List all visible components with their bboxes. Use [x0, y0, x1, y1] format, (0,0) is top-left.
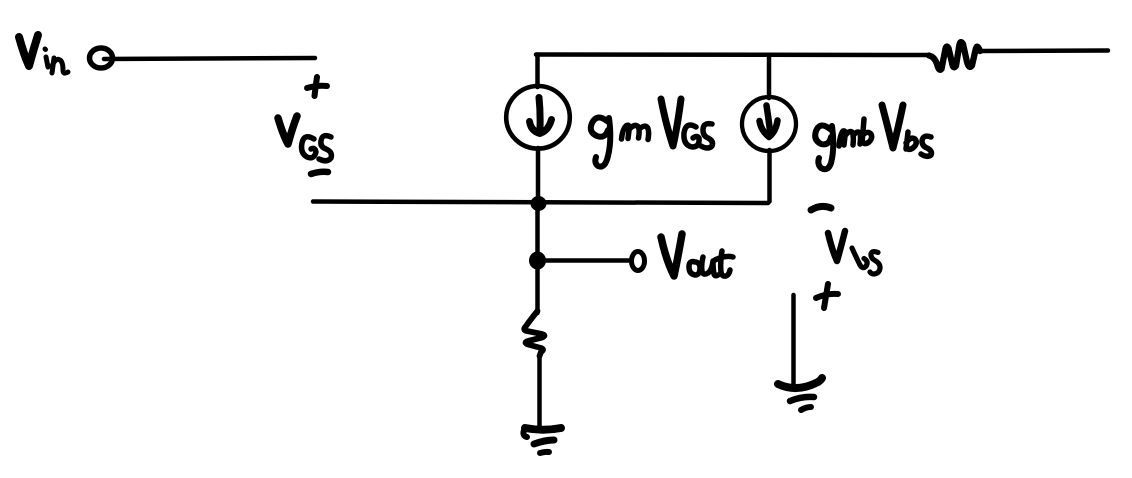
ground G2	[778, 378, 822, 410]
terminal Vin	[90, 48, 113, 68]
node A junction dot	[531, 196, 547, 211]
ground G1	[523, 428, 561, 453]
plus Vbs	[816, 284, 838, 308]
wire top rail	[536, 52, 929, 57]
label Vout	[661, 234, 733, 276]
terminal Vout	[632, 252, 645, 271]
node Vin label	[19, 35, 68, 73]
minus VGS	[311, 172, 328, 174]
wire U1 bottom	[536, 148, 541, 199]
current source U1 arrow	[530, 98, 552, 134]
label Vbs	[828, 231, 880, 274]
wire node B to Vout terminal	[546, 258, 631, 263]
wire mid node row	[313, 202, 768, 204]
wire R2 to ground	[537, 356, 542, 427]
current source U2 circle	[742, 97, 796, 151]
node B junction dot	[529, 252, 546, 270]
label gmb Vbs	[815, 105, 931, 169]
label gm VGS	[591, 99, 713, 167]
current source U1 circle	[506, 86, 570, 149]
resistor R1 (top right squiggle)	[929, 42, 980, 70]
label VGS	[278, 116, 331, 161]
minus Vbs	[811, 206, 831, 210]
wire U2 top	[767, 55, 772, 98]
wire Vbs to ground	[791, 295, 796, 385]
resistor R2 (vertical squiggle)	[524, 311, 544, 356]
current source U2 arrow	[760, 106, 778, 138]
wire top right	[980, 48, 1108, 53]
plus VGS	[307, 77, 327, 96]
wire Vin to VGS+	[104, 58, 315, 59]
wire U2 bottom	[767, 150, 772, 202]
wire top left vertical	[535, 55, 540, 88]
wire node A to node B	[535, 203, 540, 313]
